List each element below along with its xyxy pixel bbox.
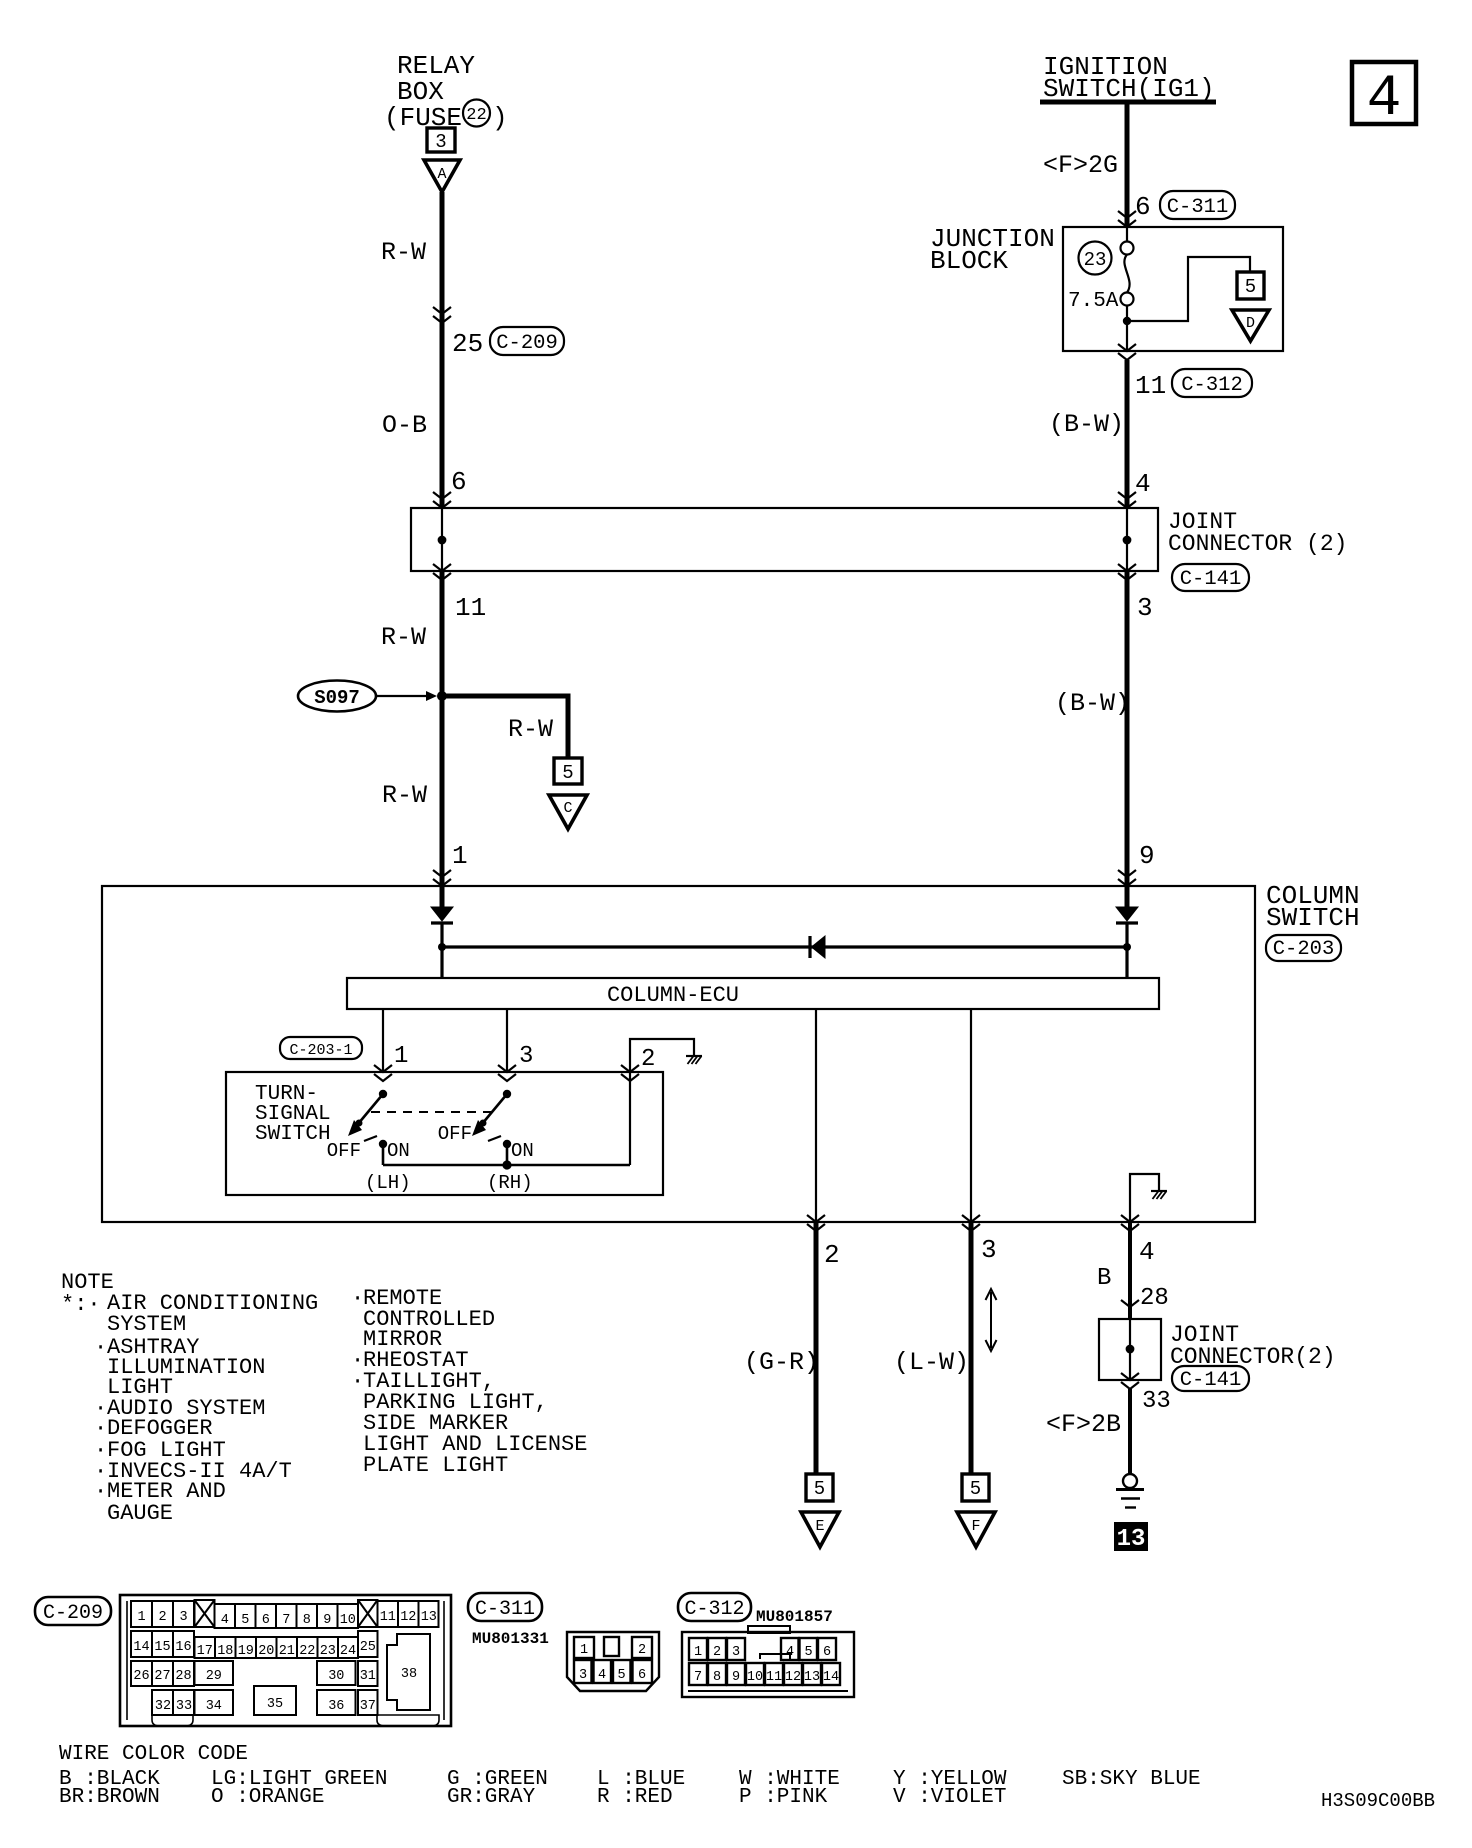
svg-text:1: 1 <box>137 1610 145 1625</box>
svg-text:11: 11 <box>766 1670 782 1685</box>
svg-text:5: 5 <box>617 1668 625 1683</box>
svg-text:R-W: R-W <box>381 238 426 267</box>
LH ON contact <box>379 1140 387 1148</box>
earth ground <box>1116 1474 1144 1508</box>
connector arrow into turn-signal switch pin3 <box>498 1065 516 1081</box>
svg-text:MU801857: MU801857 <box>756 1608 833 1626</box>
connector pill C-203 <box>1266 935 1341 961</box>
ignition switch label <box>1043 52 1215 104</box>
svg-text:F: F <box>971 1518 980 1535</box>
node in junction block <box>1123 317 1131 325</box>
svg-text:28: 28 <box>175 1669 191 1684</box>
svg-text:3: 3 <box>519 1043 533 1070</box>
connector pill C-209 <box>490 327 564 355</box>
svg-text:3: 3 <box>732 1645 740 1660</box>
svg-text:37: 37 <box>360 1699 376 1714</box>
svg-text:R :RED: R :RED <box>597 1786 673 1809</box>
wire color code <box>59 1743 1201 1809</box>
svg-text:10: 10 <box>747 1670 763 1685</box>
svg-text:33: 33 <box>176 1699 192 1714</box>
svg-text:5: 5 <box>814 1478 825 1500</box>
svg-text:5: 5 <box>970 1478 981 1500</box>
svg-text:4: 4 <box>1367 67 1402 132</box>
connector pill C-203-1 <box>280 1037 362 1059</box>
svg-text:V :VIOLET: V :VIOLET <box>893 1786 1006 1809</box>
svg-text:11: 11 <box>455 593 486 623</box>
svg-text:3: 3 <box>981 1235 997 1265</box>
svg-text:10: 10 <box>340 1613 356 1628</box>
joint connector (2) box C-141 <box>411 508 1158 571</box>
svg-text:38: 38 <box>401 1667 417 1682</box>
svg-text:C-312: C-312 <box>684 1598 744 1621</box>
node S097 on wire <box>437 691 447 701</box>
svg-text:4: 4 <box>786 1645 794 1660</box>
connector arrow into column switch (right pin 9) <box>1118 870 1136 886</box>
COLUMN-ECU box <box>347 978 1159 1009</box>
svg-text:11: 11 <box>380 1610 396 1625</box>
connector box 5 (E) <box>806 1474 833 1501</box>
RH switch arm end contact <box>480 1120 487 1127</box>
svg-text:SB:SKY BLUE: SB:SKY BLUE <box>1062 1768 1201 1791</box>
svg-text:R-W: R-W <box>382 781 427 810</box>
svg-text:ON: ON <box>387 1140 410 1162</box>
svg-text:·: · <box>94 1479 107 1504</box>
break 28 <box>1121 1300 1139 1307</box>
svg-text:4: 4 <box>1139 1237 1155 1267</box>
svg-text:·: · <box>94 1335 107 1360</box>
fuse number circle 22 <box>463 100 490 127</box>
connector pill C-312 <box>1172 369 1252 397</box>
fuse number circle 23 <box>1079 242 1112 275</box>
connector box 5 (D) <box>1237 272 1264 299</box>
triangle C <box>549 795 587 829</box>
splice S097 <box>298 681 437 712</box>
diode D2 (right) <box>1116 907 1138 923</box>
svg-text:COLUMN-ECU: COLUMN-ECU <box>607 983 739 1008</box>
node right rail <box>1123 943 1131 951</box>
joint connector (2) small box <box>1099 1319 1161 1380</box>
svg-text:19: 19 <box>238 1644 254 1659</box>
svg-text:C-311: C-311 <box>1167 196 1229 219</box>
svg-text:9: 9 <box>1139 841 1155 871</box>
RH switch arm <box>482 1094 507 1124</box>
connector arrow into turn-signal switch pin1 <box>374 1065 392 1081</box>
svg-text:1: 1 <box>452 841 468 871</box>
inline connector break 25 (C-209) <box>433 307 451 323</box>
svg-text:(RH): (RH) <box>487 1172 533 1194</box>
svg-text:2: 2 <box>713 1645 721 1660</box>
node left <box>438 536 447 545</box>
svg-text:(B-W): (B-W) <box>1049 410 1124 439</box>
svg-text:12: 12 <box>400 1610 416 1625</box>
wire B down to joint connector 2 <box>1128 1222 1132 1319</box>
connector arrow out of column switch pin4 <box>1121 1215 1139 1231</box>
svg-text:23: 23 <box>320 1644 336 1659</box>
svg-text:31: 31 <box>360 1669 376 1684</box>
joint connector label <box>1168 509 1347 557</box>
svg-text:(B-W): (B-W) <box>1055 689 1130 718</box>
connector arrow into turn-signal switch pin2 <box>621 1065 639 1081</box>
wire (L-W) down to box 5 F <box>969 1222 974 1474</box>
svg-text:33: 33 <box>1142 1388 1171 1415</box>
wire below diode left <box>440 923 443 978</box>
svg-text:30: 30 <box>328 1669 344 1684</box>
svg-text:7: 7 <box>694 1670 702 1685</box>
column switch label <box>1266 881 1360 933</box>
LH dash to ON <box>364 1136 377 1141</box>
svg-text:14: 14 <box>133 1640 149 1655</box>
LH switch arm end contact <box>356 1120 363 1127</box>
connector C-312 pin numbers <box>694 1645 839 1685</box>
fuse 7.5A symbol <box>1121 227 1134 351</box>
svg-text:6: 6 <box>451 467 467 497</box>
svg-text:3: 3 <box>179 1610 187 1625</box>
svg-text:P :PINK: P :PINK <box>739 1786 828 1809</box>
connector arrow into joint connector (left) <box>433 492 451 508</box>
RH ON contact <box>503 1140 511 1148</box>
connector box 3 (relay box) <box>427 128 455 153</box>
svg-text:16: 16 <box>175 1640 191 1655</box>
svg-text:C-141: C-141 <box>1180 568 1242 591</box>
connector box 5 (C) <box>554 758 582 784</box>
node left rail <box>438 943 446 951</box>
relay box label <box>384 51 508 133</box>
wire through joint connector 2 <box>1129 1319 1131 1380</box>
wire through joint connector left <box>441 508 443 571</box>
wire ECU output 2 <box>815 1009 817 1222</box>
svg-text:5: 5 <box>1245 276 1256 298</box>
svg-text:(L-W): (L-W) <box>894 1348 969 1377</box>
chassis ground (pin 4) <box>1151 1191 1167 1199</box>
wire R-W from relay box down to column switch <box>440 192 445 508</box>
wire from ignition switch <box>1125 102 1130 227</box>
svg-text:3: 3 <box>1137 593 1153 623</box>
turn-signal switch box <box>226 1072 663 1195</box>
svg-text:15: 15 <box>154 1640 170 1655</box>
svg-text:4: 4 <box>598 1668 606 1683</box>
LH ON wire down <box>382 1144 385 1165</box>
connector arrow out of joint connector (right) <box>1118 564 1136 580</box>
svg-text:9: 9 <box>323 1613 331 1628</box>
double arrow beside wire 3 <box>986 1289 997 1351</box>
svg-text:SWITCH: SWITCH <box>1266 903 1360 933</box>
connector pill C-311 <box>1160 191 1235 219</box>
column switch box <box>102 886 1255 1222</box>
connector C-209 pin numbers <box>133 1610 437 1714</box>
svg-text:7.5A: 7.5A <box>1068 290 1119 313</box>
diode D3 (mid, pointing left) <box>810 936 825 958</box>
svg-text:4: 4 <box>221 1613 229 1628</box>
svg-text:25: 25 <box>360 1640 376 1655</box>
dashed link between switch arms <box>371 1111 497 1113</box>
svg-text:13: 13 <box>804 1670 820 1685</box>
wire ECU output 3 <box>970 1009 972 1222</box>
svg-text:9: 9 <box>732 1670 740 1685</box>
triangle F <box>957 1512 995 1547</box>
connector C-311 pin numbers <box>579 1643 646 1683</box>
pin 2 wire inside box <box>629 1072 631 1165</box>
wire ECU pin 1 to turn-signal switch <box>382 1009 384 1072</box>
svg-text:32: 32 <box>155 1699 171 1714</box>
node right <box>1123 536 1132 545</box>
connector arrow out of joint connector (left) <box>433 564 451 580</box>
svg-text:17: 17 <box>197 1644 213 1659</box>
ON rail wire <box>383 1164 630 1167</box>
page number box 4 <box>1352 62 1416 132</box>
svg-text:MU801331: MU801331 <box>472 1630 549 1648</box>
wire below diode right <box>1125 923 1128 978</box>
svg-text:12: 12 <box>785 1670 801 1685</box>
svg-text:SWITCH: SWITCH <box>255 1123 331 1146</box>
svg-text:4: 4 <box>1135 469 1151 499</box>
wire B-W from junction block to joint connector <box>1125 360 1130 508</box>
svg-text:7: 7 <box>282 1613 290 1628</box>
svg-text:C-141: C-141 <box>1180 1369 1242 1392</box>
svg-text:24: 24 <box>340 1644 356 1659</box>
svg-text:2: 2 <box>638 1643 646 1658</box>
node RH ON rail <box>502 1160 511 1169</box>
svg-text:6: 6 <box>1135 192 1151 222</box>
svg-text:6: 6 <box>823 1645 831 1660</box>
wire ECU pin 3 to turn-signal switch <box>506 1009 508 1072</box>
junction block label <box>930 224 1055 276</box>
svg-text:<F>2G: <F>2G <box>1043 151 1118 180</box>
wire pin 2 with ground branch <box>630 1039 694 1072</box>
svg-text:C-311: C-311 <box>475 1598 535 1621</box>
connector arrow into joint connector (right) <box>1118 492 1136 508</box>
wire (G-R) down to box 5 E <box>814 1222 819 1474</box>
svg-text:34: 34 <box>206 1699 222 1714</box>
svg-text:): ) <box>492 103 508 133</box>
svg-text:O :ORANGE: O :ORANGE <box>211 1786 324 1809</box>
svg-text:5: 5 <box>804 1645 812 1660</box>
svg-text:O-B: O-B <box>382 411 427 440</box>
svg-text:BR:BROWN: BR:BROWN <box>59 1786 160 1809</box>
svg-text:GAUGE: GAUGE <box>107 1501 173 1526</box>
ignition switch bus bar <box>1040 100 1216 105</box>
svg-text:2: 2 <box>824 1240 840 1270</box>
svg-text:3: 3 <box>435 131 446 153</box>
svg-text:R-W: R-W <box>508 715 553 744</box>
RH dash to ON <box>488 1136 501 1141</box>
connector arrow out of joint connector 2 <box>1121 1373 1139 1389</box>
svg-text:WIRE COLOR CODE: WIRE COLOR CODE <box>59 1743 248 1766</box>
connector box 5 (F) <box>962 1474 989 1501</box>
svg-text:C-203: C-203 <box>1273 938 1335 961</box>
svg-text:25: 25 <box>452 329 483 359</box>
triangle A <box>424 160 460 192</box>
connector arrow out of column switch pin3 <box>962 1215 980 1231</box>
svg-text:3: 3 <box>579 1668 587 1683</box>
connector arrow into junction block <box>1118 211 1136 227</box>
svg-text:PLATE LIGHT: PLATE LIGHT <box>363 1453 508 1478</box>
wire pin 4 with ground branch <box>1130 1174 1159 1222</box>
diode D1 (left) <box>431 907 453 923</box>
junction block box <box>1063 227 1283 351</box>
svg-text:ON: ON <box>511 1140 534 1162</box>
svg-text:14: 14 <box>823 1670 839 1685</box>
joint connector 2 label <box>1170 1322 1336 1370</box>
wire (F)2B to ground <box>1128 1389 1132 1474</box>
connector arrow out of junction block <box>1118 344 1136 360</box>
svg-text:C-203-1: C-203-1 <box>289 1042 352 1059</box>
svg-text:18: 18 <box>217 1644 233 1659</box>
svg-text:13: 13 <box>421 1610 437 1625</box>
connector pill C-141 lower <box>1172 1366 1249 1392</box>
LH switch arm arrowhead <box>348 1120 362 1136</box>
connector C-312 pinout <box>682 1626 854 1697</box>
svg-text:22: 22 <box>466 106 486 125</box>
svg-text:28: 28 <box>1140 1285 1169 1312</box>
svg-text:D: D <box>1246 315 1255 332</box>
svg-text:<F>2B: <F>2B <box>1046 1410 1121 1439</box>
connector pill C-311 <box>468 1593 542 1621</box>
svg-text:GR:GRAY: GR:GRAY <box>447 1786 536 1809</box>
svg-text:6: 6 <box>638 1668 646 1683</box>
svg-text:2: 2 <box>641 1046 655 1073</box>
svg-text:R-W: R-W <box>381 623 426 652</box>
svg-text:S097: S097 <box>314 687 360 709</box>
RH switch common contact <box>503 1090 511 1098</box>
svg-text:H3S09C00BB: H3S09C00BB <box>1321 1790 1435 1812</box>
svg-text:(G-R): (G-R) <box>744 1348 819 1377</box>
turn-signal switch label <box>255 1083 331 1146</box>
svg-text:E: E <box>815 1518 824 1535</box>
svg-text:OFF: OFF <box>438 1123 472 1145</box>
svg-text:20: 20 <box>258 1644 274 1659</box>
svg-text:13: 13 <box>1117 1526 1146 1553</box>
svg-text:CONNECTOR (2): CONNECTOR (2) <box>1168 531 1347 557</box>
wire B-W joint connector to column switch <box>1125 571 1130 907</box>
svg-text:A: A <box>437 166 446 183</box>
chassis ground (pin 2) <box>686 1056 702 1064</box>
LH switch common contact <box>379 1090 387 1098</box>
wire branch R-W to box 5 C <box>442 696 568 758</box>
wire branch to box 5 D <box>1127 257 1250 321</box>
svg-text:OFF: OFF <box>327 1140 361 1162</box>
svg-text:BLOCK: BLOCK <box>930 246 1008 276</box>
connector pill C-141 <box>1172 564 1249 591</box>
wire R-W joint connector to column switch <box>440 571 445 907</box>
svg-text:6: 6 <box>262 1613 270 1628</box>
node joint connector 2 <box>1126 1345 1135 1354</box>
connector pill C-209 (pinout) <box>35 1597 111 1625</box>
rail wire between diodes <box>442 945 1127 948</box>
wire through joint connector right <box>1126 508 1128 571</box>
svg-text:C: C <box>563 800 572 817</box>
svg-text:8: 8 <box>713 1670 721 1685</box>
connector C-311 pinout <box>567 1632 659 1691</box>
connector C-209 pinout <box>120 1595 451 1726</box>
LH switch arm <box>358 1094 383 1124</box>
RH switch arm arrowhead <box>472 1120 486 1136</box>
connector arrow into column switch (left pin 1) <box>433 870 451 886</box>
svg-text:22: 22 <box>299 1644 315 1659</box>
svg-text:C-209: C-209 <box>43 1602 103 1625</box>
svg-text:21: 21 <box>279 1644 295 1659</box>
svg-text:C-209: C-209 <box>496 332 558 355</box>
svg-text:*:·: *:· <box>61 1292 101 1317</box>
svg-text:5: 5 <box>241 1613 249 1628</box>
connector arrow out of column switch pin2 <box>807 1215 825 1231</box>
svg-text:11: 11 <box>1135 371 1166 401</box>
svg-text:C-312: C-312 <box>1181 374 1243 397</box>
svg-text:26: 26 <box>133 1669 149 1684</box>
svg-text:1: 1 <box>394 1043 408 1070</box>
triangle E <box>801 1512 839 1547</box>
svg-text:23: 23 <box>1084 249 1107 271</box>
svg-text:35: 35 <box>267 1697 283 1712</box>
svg-text:(LH): (LH) <box>365 1172 411 1194</box>
connector pill C-312 <box>678 1593 751 1621</box>
RH ON wire down <box>506 1144 509 1165</box>
svg-text:5: 5 <box>562 762 573 784</box>
note block <box>61 1270 587 1526</box>
triangle D <box>1232 310 1269 341</box>
svg-text:2: 2 <box>158 1610 166 1625</box>
ground reference box 13 <box>1114 1522 1148 1553</box>
svg-text:8: 8 <box>303 1613 311 1628</box>
svg-text:29: 29 <box>206 1669 222 1684</box>
svg-text:36: 36 <box>328 1699 344 1714</box>
svg-text:SYSTEM: SYSTEM <box>107 1312 186 1337</box>
svg-text:1: 1 <box>694 1645 702 1660</box>
svg-text:B: B <box>1097 1265 1111 1292</box>
svg-text:1: 1 <box>580 1643 588 1658</box>
svg-text:27: 27 <box>154 1669 170 1684</box>
